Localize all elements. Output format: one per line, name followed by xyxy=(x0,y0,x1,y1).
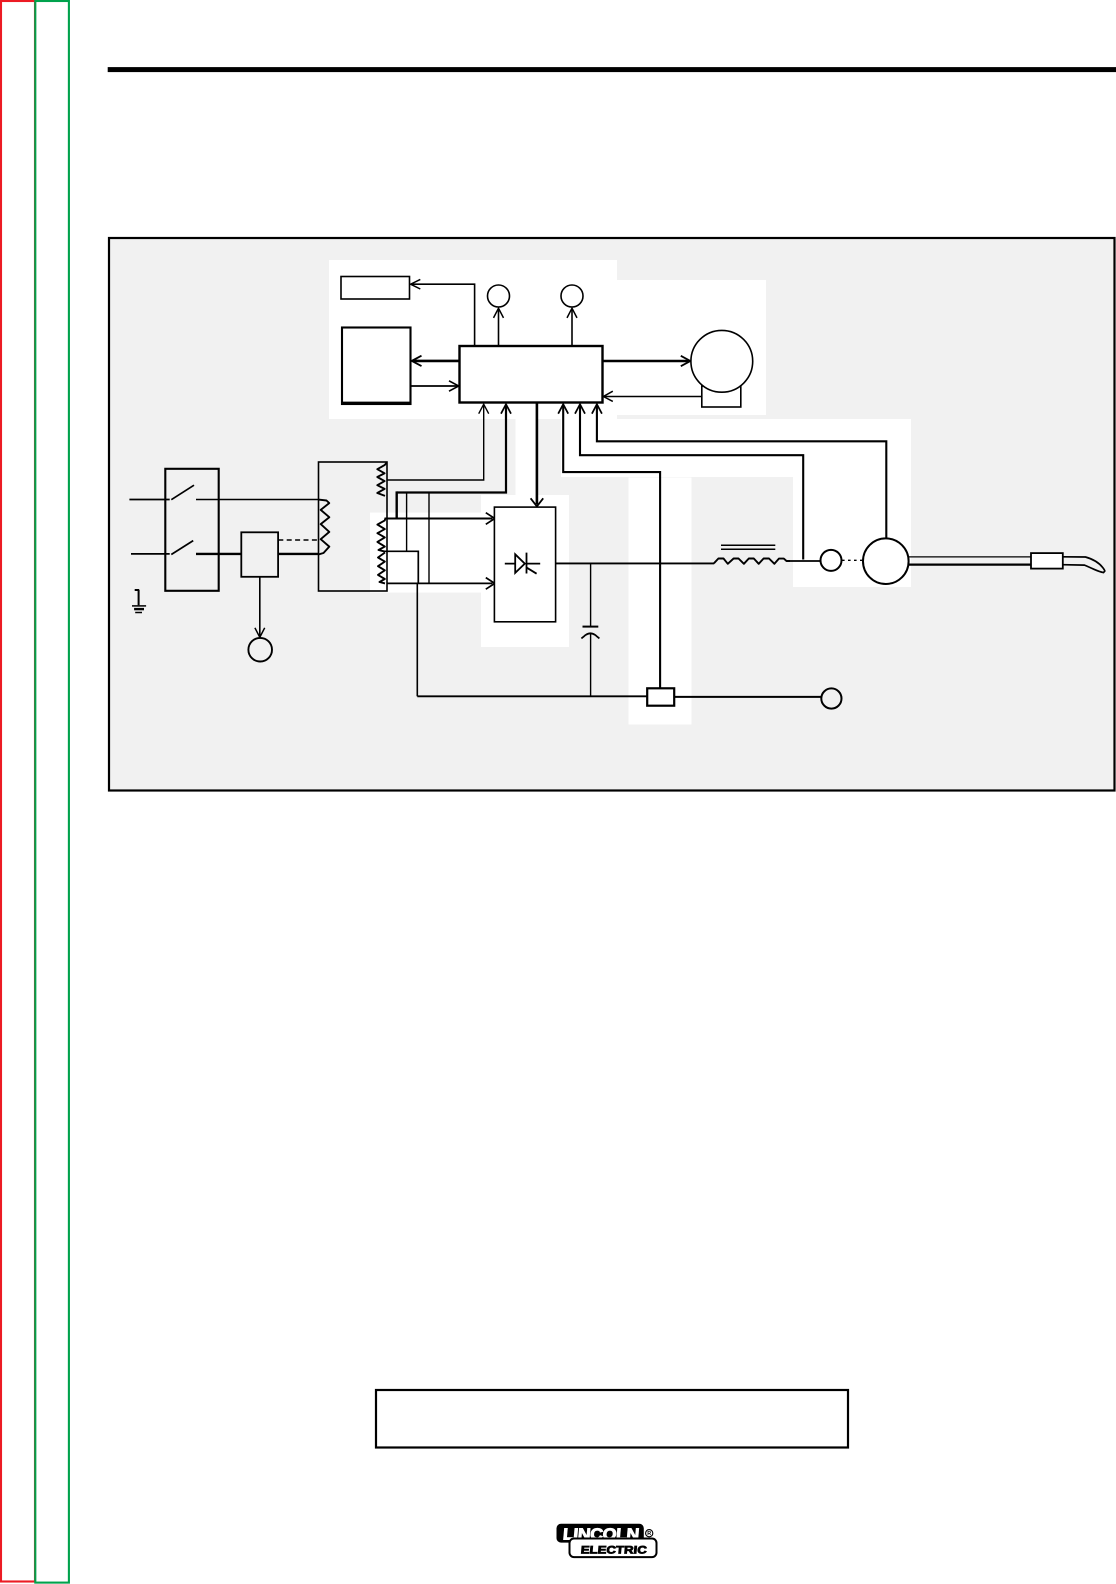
control PCB R3 xyxy=(460,346,603,403)
white patch D (mid band) xyxy=(561,419,911,477)
header rule xyxy=(108,67,1116,72)
secondary out to rectifier (thick) xyxy=(396,491,398,518)
wire motor lead PCB pin5 xyxy=(597,405,886,539)
wire PCB to R2 (thick) xyxy=(413,360,460,363)
output stud C5 xyxy=(821,550,842,571)
transformer T1 box xyxy=(319,462,388,591)
wire sensor to bottom bus xyxy=(416,583,418,696)
white patch H (secondary area) xyxy=(370,513,482,593)
capacitor plate xyxy=(583,626,599,628)
output control block R1 xyxy=(341,277,410,300)
bottom bus right segment xyxy=(675,696,822,698)
current sensor box R11 xyxy=(385,551,419,583)
aux winding (top right) xyxy=(377,463,386,496)
wire switch1 to transformer xyxy=(196,499,319,501)
wire feed motor C6 xyxy=(863,538,909,584)
arrowhead pin4 xyxy=(575,404,585,414)
wire drive block R2 xyxy=(342,328,411,405)
green margin stripe xyxy=(35,1,69,1583)
trigger connector R9 xyxy=(647,688,674,705)
wire feedback PCB pin4 xyxy=(580,405,803,560)
arrowhead pin1 xyxy=(479,404,489,414)
ground symbol xyxy=(135,590,139,606)
red margin stripe xyxy=(1,1,35,1582)
bottom bus left segment xyxy=(417,695,646,697)
pot circle P1 xyxy=(488,285,510,307)
trigger circle C4 xyxy=(821,688,841,708)
wire R2 to PCB xyxy=(411,385,458,387)
white patch B (fan area) xyxy=(617,280,766,415)
wire breaker to transformer (thick) xyxy=(278,553,319,555)
arrowhead into fan xyxy=(681,356,691,366)
arrowhead into PCB left edge xyxy=(449,381,459,391)
white patch C (right column) xyxy=(793,477,911,587)
arrowhead pin5 xyxy=(592,404,602,414)
Lincoln Electric logo xyxy=(557,1524,657,1557)
wire PCB to fan (thick) xyxy=(603,360,689,363)
caption box xyxy=(376,1390,848,1448)
gate drive down to rectifier (thick) xyxy=(536,404,539,505)
gun cable upper xyxy=(909,556,1032,558)
arrowhead into R1 xyxy=(411,279,421,289)
white patch A (top components) xyxy=(329,260,617,419)
sense lead to CT box xyxy=(406,493,408,552)
wire PCB to P1 xyxy=(498,309,500,345)
bus choke to output stud xyxy=(789,560,820,562)
capacitor curved plate xyxy=(581,633,599,638)
fan motor M1 xyxy=(691,330,753,392)
line lead L2in xyxy=(131,553,170,555)
choke core lines xyxy=(721,545,775,549)
switch blade 1 xyxy=(171,485,194,500)
arrowhead up into P1 xyxy=(494,308,504,318)
capacitor lead upper xyxy=(590,564,592,626)
white patch F (rectifier area) xyxy=(481,495,569,647)
reset button C7 xyxy=(248,638,272,662)
arrowhead into rectifier bottom-left xyxy=(486,578,495,590)
arrowhead into R2 xyxy=(412,356,422,366)
wire fan base to PCB xyxy=(605,396,702,398)
white patch E (strip under PCB) xyxy=(516,403,538,507)
wire trigger line PCB pin3 xyxy=(563,405,660,689)
fan base R4 xyxy=(702,386,741,407)
arrowhead pin2 xyxy=(501,404,511,414)
dashed link C5 to motor xyxy=(842,559,863,561)
breaker reset lead xyxy=(259,577,261,636)
pot circle P2 xyxy=(561,285,583,307)
switch blade 2 xyxy=(171,541,193,555)
input switch box S1 xyxy=(165,469,218,591)
lead down to lower bus xyxy=(428,493,430,584)
arrowhead into rectifier top-left xyxy=(486,513,495,525)
arrowhead down into rectifier xyxy=(531,498,544,506)
line lead L1in xyxy=(129,499,169,501)
lower secondary to rectifier xyxy=(387,582,492,584)
white patch K (connector column) xyxy=(629,478,692,725)
diagram panel xyxy=(109,238,1115,791)
wire winding tap to PCB pin1 xyxy=(387,405,484,481)
arrowhead down to reset button xyxy=(255,628,265,638)
choke L1 zigzag xyxy=(714,559,790,564)
arrowhead up into P2 xyxy=(567,308,577,318)
SCR symbol xyxy=(505,553,540,574)
output bus from rectifier xyxy=(556,562,715,564)
wire PCB to P2 xyxy=(571,309,573,345)
capacitor lead lower xyxy=(590,634,592,696)
svg-text:ELECTRIC: ELECTRIC xyxy=(580,1544,647,1556)
rectifier bridge R8 xyxy=(494,507,555,622)
wire R1 to PCB xyxy=(411,284,475,345)
wire secondary to PCB pin2 (thick) xyxy=(397,405,506,493)
arrowhead pin3 xyxy=(558,404,568,414)
dashed breaker link xyxy=(278,539,318,541)
primary winding xyxy=(319,500,330,555)
gun body R10 xyxy=(1031,553,1063,569)
secondary winding upper xyxy=(377,519,385,552)
svg-text:R: R xyxy=(647,1531,651,1537)
wire switch2 to breaker (thick) xyxy=(196,553,241,555)
secondary winding lower xyxy=(378,553,385,584)
circuit breaker CB1 xyxy=(241,532,278,577)
gun nozzle xyxy=(1063,557,1105,573)
gun cable lower xyxy=(909,563,1032,565)
arrowhead into PCB right edge xyxy=(603,391,612,401)
R2 bottom heavy edge xyxy=(341,402,411,405)
